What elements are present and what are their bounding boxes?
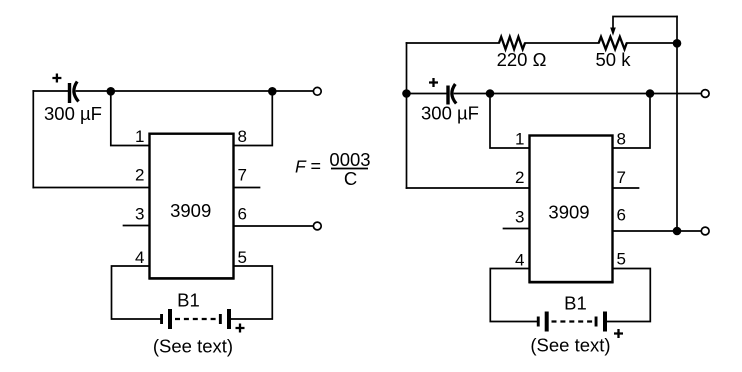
wire: left circuit top rail — [33, 90, 313, 92]
terminal: open circle output top left circuit — [313, 87, 321, 95]
svg-text:(See text): (See text) — [530, 335, 610, 356]
svg-text:7: 7 — [617, 168, 626, 187]
formula F = 0003/C — [295, 149, 371, 189]
svg-text:2: 2 — [515, 168, 524, 187]
svg-text:1: 1 — [515, 130, 524, 149]
svg-text:8: 8 — [238, 127, 247, 146]
wire: potentiometer wiper link — [613, 17, 677, 29]
svg-text:220 Ω: 220 Ω — [497, 49, 547, 70]
label: (See text) left circuit — [153, 336, 233, 357]
svg-text:3909: 3909 — [548, 202, 589, 223]
svg-text:(See text): (See text) — [153, 336, 233, 357]
wire: pin 3 stub left circuit — [124, 225, 150, 227]
node C: junction dot top rail right circuit — [673, 39, 682, 48]
pin numbers right circuit right side — [617, 130, 626, 269]
terminal: open circle pin 6 left circuit — [313, 222, 321, 230]
wire: pin 4 down-leg right circuit — [490, 269, 536, 322]
resistor 220 ohm — [497, 37, 547, 70]
wire: right circuit capacitor rail — [407, 93, 702, 95]
op-amp U2: IC 3909 body (right circuit) — [529, 136, 614, 283]
wire: pin 7 stub right circuit — [613, 187, 639, 189]
wire: right rail from wiper to pin 6 — [676, 17, 678, 232]
pin numbers left circuit left side — [135, 127, 144, 267]
svg-text:3: 3 — [515, 208, 524, 227]
wire: pin 5 down-leg left circuit — [231, 266, 272, 319]
wire: pin 3 stub right circuit — [504, 228, 530, 230]
wire: pin 2 feed right circuit — [407, 187, 530, 189]
node B: junction dot left circuit top-right — [268, 87, 277, 96]
svg-text:C: C — [344, 168, 357, 189]
wiper arrow of potentiometer — [610, 28, 616, 36]
wire: pin 1 riser left circuit — [111, 91, 150, 145]
svg-text:0003: 0003 — [329, 149, 370, 170]
svg-text:5: 5 — [617, 250, 626, 269]
node E: junction dot after capacitor right circuit — [486, 89, 495, 98]
svg-text:300 µF: 300 µF — [421, 103, 479, 124]
svg-text:B1: B1 — [177, 290, 200, 311]
svg-text:F: F — [295, 157, 307, 177]
svg-text:4: 4 — [515, 251, 524, 270]
svg-text:5: 5 — [238, 248, 247, 267]
node F: junction dot pin 8 riser right circuit — [646, 89, 655, 98]
wire: pin 1 riser right circuit — [490, 94, 530, 149]
wire: pin 6 output right circuit — [613, 230, 702, 232]
op-amp U1: IC 3909 body (left circuit) — [149, 134, 235, 279]
battery B1 (left circuit) — [160, 290, 244, 333]
svg-text:6: 6 — [617, 206, 626, 225]
capacitor 300 uF (right circuit) — [421, 78, 479, 124]
svg-text:2: 2 — [135, 166, 144, 185]
capacitor 300 uF (left circuit) — [44, 74, 102, 125]
svg-text:7: 7 — [238, 166, 247, 185]
svg-text:6: 6 — [238, 205, 247, 224]
wire: right circuit left rail — [406, 43, 408, 188]
svg-text:=: = — [311, 156, 322, 176]
potentiometer 50 k — [596, 37, 632, 70]
wire: pin 4 down-leg left circuit — [112, 266, 161, 319]
wire: right circuit top rail with resistors — [407, 42, 678, 44]
pin numbers right circuit left side — [515, 130, 524, 270]
wire: left circuit left rail down to pin 2 — [32, 91, 34, 188]
svg-text:50 k: 50 k — [596, 49, 632, 70]
wire: pin 6 output left circuit — [234, 225, 314, 227]
wire: pin 8 riser right circuit — [613, 94, 651, 149]
label: (See text) right circuit — [530, 335, 610, 356]
svg-text:1: 1 — [135, 127, 144, 146]
battery B1 (right circuit) — [537, 293, 623, 339]
svg-text:B1: B1 — [564, 293, 587, 314]
terminal: open circle pin 6 right circuit — [701, 227, 709, 235]
svg-text:3909: 3909 — [170, 200, 211, 221]
pin numbers left circuit right side — [238, 127, 247, 267]
node D: junction dot left end cap rail right circuit — [402, 89, 411, 98]
wire: pin 5 down-leg right circuit — [607, 269, 650, 322]
wire: pin 2 feed left circuit — [33, 187, 149, 189]
svg-text:300 µF: 300 µF — [44, 103, 102, 124]
wire: pin 7 stub left circuit — [234, 187, 260, 189]
node G: junction dot pin 6 right circuit — [673, 227, 682, 236]
wire: pin 8 riser left circuit — [234, 91, 273, 145]
terminal: open circle output top right circuit — [701, 90, 709, 98]
svg-text:3: 3 — [135, 205, 144, 224]
svg-text:8: 8 — [617, 130, 626, 149]
node A: junction dot left circuit top-left — [107, 87, 116, 96]
svg-text:4: 4 — [135, 248, 144, 267]
